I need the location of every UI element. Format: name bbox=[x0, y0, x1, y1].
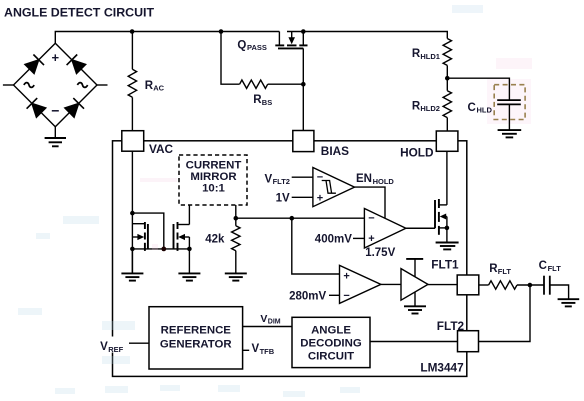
wire FLT1 to R_FLT bbox=[479, 284, 489, 286]
wire buffer output to FLT1 bbox=[428, 284, 457, 286]
svg-text:CIRCUIT: CIRCUIT bbox=[308, 350, 354, 362]
label V_DIM bbox=[260, 313, 280, 326]
diode D3 (bottom vertex to left vertex) bbox=[27, 98, 46, 117]
node dot BIAS/R_BS bbox=[301, 82, 306, 87]
transistor M_left (current mirror) bbox=[132, 222, 148, 251]
ground (C_FLT) bbox=[558, 299, 580, 306]
svg-text:FLT: FLT bbox=[548, 264, 562, 273]
label R_HLD1 bbox=[412, 48, 440, 61]
box reference generator bbox=[149, 307, 243, 369]
svg-text:V: V bbox=[100, 341, 108, 353]
capacitor C_HLD bbox=[497, 100, 521, 104]
resistor R_BS bbox=[240, 80, 268, 88]
svg-text:−: − bbox=[343, 290, 349, 302]
box angle decoding circuit bbox=[292, 317, 370, 367]
ground (buffer) bbox=[404, 292, 426, 313]
svg-text:BS: BS bbox=[262, 98, 272, 107]
label EN_HOLD bbox=[356, 173, 394, 186]
wire FLT2 to filter node bbox=[479, 285, 531, 342]
svg-text:+: + bbox=[368, 233, 374, 245]
wire R_BS right leg bbox=[268, 83, 304, 85]
svg-text:EN: EN bbox=[356, 173, 372, 185]
svg-text:HLD: HLD bbox=[477, 106, 493, 115]
wire hold divider to C_HLD bbox=[447, 78, 509, 99]
svg-text:42k: 42k bbox=[205, 233, 225, 245]
IC outline LM3447 bbox=[113, 141, 467, 377]
svg-text:REF: REF bbox=[108, 345, 123, 354]
diode D4 (bottom vertex to right vertex) bbox=[65, 98, 84, 117]
buffer amplifier U4 bbox=[401, 269, 428, 301]
wire R_FLT to node bbox=[517, 284, 544, 286]
pin FLT1 bbox=[457, 275, 479, 295]
wire top rail bbox=[55, 32, 279, 44]
svg-text:FLT2: FLT2 bbox=[273, 177, 290, 186]
pin FLT2 bbox=[458, 331, 479, 352]
node dot R_AC top bbox=[130, 29, 135, 34]
label R_BS bbox=[253, 94, 272, 107]
label Q_PASS bbox=[237, 39, 266, 52]
wire mirror gate tie bbox=[132, 213, 163, 249]
svg-text:−: − bbox=[51, 103, 59, 119]
node dot R_BS left bbox=[219, 29, 224, 34]
node dot left source bbox=[130, 247, 135, 252]
svg-text:V: V bbox=[252, 343, 260, 355]
svg-text:MIRROR: MIRROR bbox=[190, 171, 236, 183]
op-amp U1 hysteresis comparator bbox=[313, 168, 355, 207]
wire V_TFB stub bbox=[243, 349, 250, 351]
pin BIAS bbox=[293, 131, 314, 152]
svg-text:PASS: PASS bbox=[247, 43, 267, 52]
wire VAC to current mirror bbox=[131, 151, 133, 273]
svg-text:Q: Q bbox=[237, 39, 246, 51]
wire mirror source rail bbox=[132, 248, 189, 250]
svg-text:DIM: DIM bbox=[268, 319, 281, 326]
diode D1 (left vertex to top vertex) bbox=[25, 55, 44, 74]
node dot right source bbox=[187, 247, 192, 252]
svg-text:FLT2: FLT2 bbox=[437, 319, 465, 333]
svg-text:VAC: VAC bbox=[149, 142, 174, 156]
resistor R_HLD1 bbox=[443, 39, 451, 66]
svg-text:280mV: 280mV bbox=[289, 291, 326, 303]
pin HOLD bbox=[436, 131, 458, 151]
svg-text:10:1: 10:1 bbox=[202, 183, 225, 195]
label R_HLD2 bbox=[412, 100, 440, 113]
svg-text:−: − bbox=[368, 213, 374, 225]
transistor Q_PASS bbox=[275, 32, 307, 49]
label V_FLT2 bbox=[265, 173, 290, 186]
svg-text:GENERATOR: GENERATOR bbox=[160, 338, 232, 350]
wire EN_HOLD output bbox=[355, 187, 386, 218]
label C_HLD bbox=[468, 102, 493, 115]
bridge AC stub right bbox=[97, 84, 108, 86]
artifact pink tint behind C_HLD box bbox=[487, 79, 531, 124]
wire branch down to 280mV comp bbox=[292, 218, 340, 274]
svg-text:+: + bbox=[343, 270, 349, 282]
svg-text:CURRENT: CURRENT bbox=[186, 160, 242, 172]
label R_FLT bbox=[489, 263, 511, 276]
svg-text:TFB: TFB bbox=[260, 347, 275, 356]
node dot R_HLD junction bbox=[445, 76, 450, 81]
wire 400mV input bbox=[353, 237, 364, 239]
resistor R_FLT bbox=[489, 281, 517, 289]
bridge rectifier frame bbox=[14, 43, 98, 127]
wire mirror box to 42k node bbox=[235, 205, 237, 226]
label V_REF bbox=[99, 337, 126, 355]
node dot M2 source bbox=[445, 226, 450, 231]
wire Q_PASS gate to BIAS bbox=[302, 48, 304, 130]
dashed box current mirror bbox=[179, 155, 247, 205]
svg-text:FLT: FLT bbox=[498, 267, 512, 276]
dashed box around C_HLD bbox=[494, 85, 525, 120]
svg-text:400mV: 400mV bbox=[315, 234, 352, 246]
svg-text:ANGLE: ANGLE bbox=[311, 324, 351, 336]
svg-text:HLD2: HLD2 bbox=[420, 104, 440, 113]
resistor R_HLD2 bbox=[443, 91, 451, 118]
svg-text:AC: AC bbox=[153, 84, 164, 93]
svg-text:C: C bbox=[468, 102, 476, 114]
node dot comp branch bbox=[290, 216, 295, 221]
wire V_REF input bbox=[129, 342, 149, 344]
hysteresis symbol bbox=[322, 181, 336, 194]
node dot Q_PASS source bbox=[301, 29, 306, 34]
resistor 42k bbox=[232, 226, 240, 251]
svg-text:−: − bbox=[317, 172, 323, 184]
svg-text:+: + bbox=[52, 50, 60, 65]
op-amp U3 280mV comparator bbox=[340, 265, 381, 303]
svg-text:V: V bbox=[265, 173, 273, 185]
diode D2 (right vertex to top vertex) bbox=[67, 55, 86, 74]
svg-text:+: + bbox=[317, 193, 323, 205]
wire V_DIM bbox=[243, 326, 292, 328]
wire ADC to FLT2 bbox=[370, 341, 458, 343]
capacitor C_FLT bbox=[544, 276, 550, 295]
ground (M2) bbox=[436, 228, 459, 250]
op-amp U2 400mV comparator bbox=[364, 209, 406, 249]
ground (bridge) bbox=[45, 127, 66, 147]
node dot FLT filter bbox=[528, 283, 533, 288]
svg-text:HOLD: HOLD bbox=[373, 177, 395, 186]
pin VAC bbox=[122, 131, 144, 152]
svg-text:REFERENCE: REFERENCE bbox=[161, 324, 232, 336]
bridge AC tilde left bbox=[24, 82, 35, 88]
transistor M_right (current mirror) bbox=[174, 205, 190, 251]
svg-text:DECODING: DECODING bbox=[300, 337, 362, 349]
svg-text:C: C bbox=[539, 260, 547, 272]
node dot VAC branch bbox=[130, 211, 135, 216]
ground (C_HLD) bbox=[498, 104, 522, 137]
resistor R_AC bbox=[131, 32, 133, 70]
watermark artifacts bbox=[18, 5, 483, 397]
wire C_FLT to ground bbox=[550, 285, 569, 299]
ground (42k) bbox=[225, 251, 247, 281]
node dot 42k bbox=[234, 216, 239, 221]
bridge AC stub left bbox=[3, 84, 14, 86]
svg-text:1V: 1V bbox=[276, 193, 290, 205]
label V_TFB bbox=[252, 343, 275, 356]
label R_AC bbox=[145, 80, 165, 93]
svg-text:HOLD: HOLD bbox=[400, 145, 434, 159]
svg-text:1.75V: 1.75V bbox=[365, 247, 395, 259]
svg-text:LM3447: LM3447 bbox=[420, 361, 464, 375]
node dot rail junction bbox=[161, 247, 166, 252]
svg-text:FLT1: FLT1 bbox=[431, 257, 459, 271]
ground (mirror left) bbox=[121, 249, 143, 281]
wire 280mV input bbox=[329, 294, 340, 296]
bridge AC tilde right bbox=[77, 82, 88, 88]
svg-text:HLD1: HLD1 bbox=[420, 52, 440, 61]
wire R_BS left leg bbox=[221, 32, 240, 85]
ground (mirror right) bbox=[178, 249, 200, 281]
svg-text:ANGLE DETECT CIRCUIT: ANGLE DETECT CIRCUIT bbox=[4, 6, 154, 20]
label C_FLT bbox=[539, 260, 562, 273]
wire V_FLT2 input bbox=[292, 176, 313, 178]
wire 1V input bbox=[292, 196, 313, 198]
svg-text:BIAS: BIAS bbox=[321, 144, 349, 158]
wire 42k node to comparators bbox=[236, 217, 365, 219]
wire comp3 output bbox=[381, 283, 401, 285]
transistor M2 bbox=[435, 151, 447, 235]
supply 1.75V rail bbox=[406, 259, 423, 277]
svg-text:V: V bbox=[260, 313, 267, 325]
wire comp2 output to M2 gate bbox=[406, 227, 435, 229]
